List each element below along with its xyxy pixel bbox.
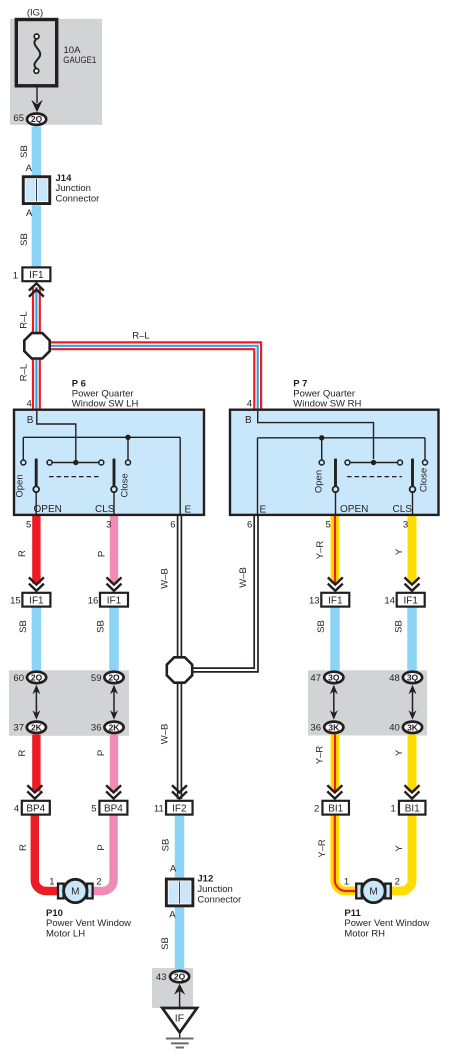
svg-text:3: 3	[403, 519, 408, 530]
svg-text:5: 5	[26, 519, 31, 530]
svg-text:R: R	[18, 844, 29, 851]
svg-text:IF1: IF1	[328, 595, 343, 606]
svg-text:SB: SB	[394, 620, 405, 633]
svg-text:CLS: CLS	[95, 504, 115, 515]
svg-text:Motor LH: Motor LH	[46, 928, 85, 939]
svg-text:IF2: IF2	[172, 803, 187, 814]
svg-text:SB: SB	[96, 620, 107, 633]
svg-text:36: 36	[91, 723, 102, 734]
svg-text:A: A	[26, 208, 33, 219]
svg-text:Open: Open	[314, 470, 325, 493]
svg-text:Window SW LH: Window SW LH	[72, 399, 139, 410]
svg-text:36: 36	[310, 723, 321, 734]
svg-text:4: 4	[247, 398, 252, 409]
svg-text:Y–R: Y–R	[315, 541, 326, 560]
svg-text:SB: SB	[19, 145, 30, 158]
svg-text:A: A	[170, 864, 177, 875]
svg-text:14: 14	[384, 595, 395, 606]
svg-text:R–L: R–L	[132, 330, 149, 341]
svg-text:Y: Y	[394, 749, 405, 756]
svg-text:M: M	[71, 887, 79, 898]
svg-text:Y–R: Y–R	[314, 746, 325, 765]
svg-text:OPEN: OPEN	[34, 504, 62, 515]
svg-text:IF: IF	[175, 1012, 184, 1024]
svg-text:W–B: W–B	[159, 724, 170, 745]
svg-text:BP4: BP4	[26, 803, 45, 814]
svg-text:SB: SB	[161, 839, 172, 852]
svg-text:37: 37	[13, 723, 24, 734]
svg-text:(IG): (IG)	[27, 8, 43, 19]
svg-text:3Q: 3Q	[407, 672, 419, 682]
svg-text:3: 3	[106, 519, 111, 530]
svg-text:CLS: CLS	[393, 504, 413, 515]
svg-text:6: 6	[247, 519, 252, 530]
svg-text:A: A	[169, 910, 176, 921]
svg-text:5: 5	[91, 803, 96, 814]
svg-text:16: 16	[88, 595, 99, 606]
svg-text:BI1: BI1	[328, 803, 343, 814]
svg-text:Motor RH: Motor RH	[344, 928, 385, 939]
svg-text:3K: 3K	[407, 722, 419, 732]
svg-text:Connector: Connector	[197, 894, 241, 905]
svg-text:GAUGE1: GAUGE1	[63, 55, 96, 66]
svg-text:47: 47	[310, 673, 321, 684]
svg-text:2: 2	[96, 877, 101, 888]
svg-text:2K: 2K	[109, 722, 121, 732]
svg-text:OPEN: OPEN	[340, 504, 368, 515]
svg-text:IF1: IF1	[107, 595, 122, 606]
svg-text:E: E	[260, 505, 267, 516]
svg-text:SB: SB	[160, 937, 171, 950]
svg-text:P: P	[96, 844, 107, 850]
svg-text:Y–R: Y–R	[317, 839, 328, 858]
svg-text:1: 1	[391, 803, 396, 814]
svg-text:2K: 2K	[31, 722, 43, 732]
svg-text:BI1: BI1	[405, 803, 420, 814]
svg-text:BP4: BP4	[104, 803, 123, 814]
svg-text:SB: SB	[18, 620, 29, 633]
svg-text:A: A	[26, 163, 33, 174]
svg-text:1: 1	[49, 877, 54, 888]
svg-text:R: R	[17, 550, 28, 557]
svg-text:Y: Y	[394, 845, 405, 852]
svg-text:4: 4	[27, 398, 32, 409]
svg-text:R–L: R–L	[18, 364, 29, 381]
svg-text:R: R	[17, 749, 28, 756]
svg-text:SB: SB	[19, 233, 30, 246]
svg-text:E: E	[185, 505, 192, 516]
svg-text:1: 1	[344, 877, 349, 888]
svg-text:Y: Y	[394, 548, 405, 555]
svg-text:15: 15	[10, 595, 21, 606]
svg-text:Connector: Connector	[56, 193, 100, 204]
svg-text:2Q: 2Q	[31, 114, 43, 124]
svg-text:4: 4	[14, 803, 19, 814]
svg-text:Close: Close	[419, 468, 430, 492]
svg-text:W–B: W–B	[238, 567, 249, 588]
svg-text:65: 65	[13, 113, 24, 124]
svg-text:2Q: 2Q	[31, 672, 43, 682]
svg-text:IF1: IF1	[29, 595, 44, 606]
svg-text:11: 11	[154, 803, 164, 814]
svg-text:1: 1	[13, 270, 18, 281]
svg-text:2Q: 2Q	[174, 972, 186, 982]
svg-text:B: B	[245, 415, 252, 426]
svg-text:3K: 3K	[328, 722, 340, 732]
svg-text:Window SW RH: Window SW RH	[293, 399, 361, 410]
svg-text:P: P	[96, 750, 107, 756]
svg-text:2: 2	[395, 877, 400, 888]
svg-text:IF1: IF1	[29, 270, 44, 281]
svg-text:Close: Close	[119, 473, 130, 497]
svg-text:B: B	[27, 415, 34, 426]
svg-text:40: 40	[389, 723, 400, 734]
svg-text:2Q: 2Q	[108, 672, 120, 682]
svg-text:3Q: 3Q	[328, 672, 340, 682]
svg-text:13: 13	[309, 595, 320, 606]
svg-text:2: 2	[314, 803, 319, 814]
svg-text:5: 5	[326, 519, 331, 530]
svg-text:59: 59	[91, 673, 102, 684]
svg-text:43: 43	[156, 972, 167, 983]
svg-text:IF1: IF1	[403, 595, 418, 606]
svg-text:R–L: R–L	[18, 311, 29, 328]
svg-text:M: M	[369, 887, 377, 898]
svg-text:48: 48	[389, 673, 400, 684]
svg-text:60: 60	[13, 673, 24, 684]
svg-text:W–B: W–B	[160, 568, 171, 589]
svg-text:Open: Open	[15, 474, 26, 497]
svg-text:P: P	[97, 551, 108, 557]
svg-text:6: 6	[170, 519, 175, 530]
svg-text:SB: SB	[316, 620, 327, 633]
